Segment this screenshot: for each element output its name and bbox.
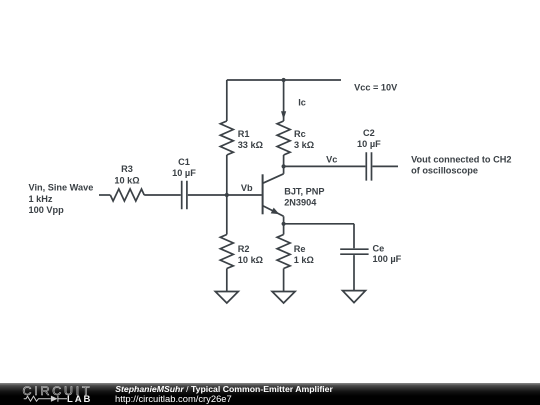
wire Vcc rail — [227, 79, 341, 81]
transistor Q1 emitter diagonal — [263, 206, 284, 217]
transistor Q1 emitter arrowhead — [271, 208, 280, 215]
svg-text:Rc: Rc — [294, 129, 306, 139]
label node Vb — [241, 183, 253, 193]
wire C2 to output — [372, 165, 398, 167]
wire emitter down to emitter node — [283, 216, 285, 224]
svg-text:100 Vpp: 100 Vpp — [29, 205, 65, 215]
svg-text:Re: Re — [294, 244, 306, 254]
resistor R1 — [220, 121, 233, 155]
svg-text:33 kΩ: 33 kΩ — [238, 140, 263, 150]
svg-text:R2: R2 — [238, 244, 250, 254]
label Ic — [298, 98, 306, 108]
label C1 value — [172, 157, 196, 178]
svg-text:Vout connected to CH2: Vout connected to CH2 — [411, 155, 511, 165]
label node Vc — [326, 155, 337, 165]
CircuitLab logo wordmark CIRCUIT — [23, 384, 93, 398]
label Ce value — [373, 244, 402, 265]
svg-text:Vb: Vb — [241, 183, 253, 193]
label Re value — [294, 244, 314, 265]
svg-text:of oscilloscope: of oscilloscope — [411, 166, 478, 176]
svg-text:100 µF: 100 µF — [373, 254, 402, 264]
ground below Re — [272, 292, 295, 304]
wire emitter node to Ce — [284, 224, 354, 249]
svg-text:10 kΩ: 10 kΩ — [238, 255, 263, 265]
svg-text:C1: C1 — [178, 157, 190, 167]
wire Vin lead — [99, 194, 110, 196]
wire Ce to ground — [353, 255, 355, 291]
wire node Vb to R2 — [226, 195, 228, 235]
svg-text:3 kΩ: 3 kΩ — [294, 140, 314, 150]
label Rc value — [294, 129, 314, 150]
wire R1 top lead — [226, 80, 228, 121]
svg-text:R3: R3 — [121, 164, 133, 174]
label Q1 type BJT PNP 2N3904 — [284, 187, 324, 208]
svg-text:R1: R1 — [238, 129, 250, 139]
label Vout note — [411, 155, 511, 176]
capacitor C2 — [366, 152, 371, 180]
svg-text:C2: C2 — [363, 128, 375, 138]
wire Re to ground — [283, 269, 285, 292]
svg-text:2N3904: 2N3904 — [284, 198, 317, 208]
junction dot node Vc — [282, 164, 286, 168]
svg-text:10 kΩ: 10 kΩ — [114, 175, 139, 185]
wire emitter node to Re — [283, 224, 285, 235]
resistor Rc — [277, 121, 290, 155]
wire C1 to base — [188, 194, 262, 196]
junction dot Vcc-Rc — [282, 78, 286, 82]
ground below R2 — [215, 292, 238, 304]
junction dot node Vb — [225, 193, 229, 197]
label Vcc = 10V — [354, 82, 398, 92]
wire Rc top lead with Ic current — [283, 80, 285, 121]
wire R1 to node Vb — [226, 155, 228, 195]
svg-text:Vcc = 10V: Vcc = 10V — [354, 82, 398, 92]
label R2 value — [238, 244, 263, 265]
label R1 value — [238, 129, 263, 150]
svg-text:Vc: Vc — [326, 155, 337, 165]
wire node Vc to C2 — [284, 165, 366, 167]
svg-text:10 µF: 10 µF — [172, 168, 196, 178]
wire collector to node Vc — [283, 166, 285, 173]
wire R2 to ground — [226, 269, 228, 292]
svg-text:BJT, PNP: BJT, PNP — [284, 187, 324, 197]
svg-text:Ce: Ce — [373, 244, 385, 254]
transistor Q1 base bar — [262, 174, 264, 214]
svg-text:http://circuitlab.com/cry26e7: http://circuitlab.com/cry26e7 — [115, 393, 232, 404]
label C2 value — [357, 128, 381, 149]
wire R3 to C1 — [144, 194, 181, 196]
resistor R2 — [220, 235, 233, 269]
svg-text:LAB: LAB — [67, 394, 92, 405]
CircuitLab logo resistor squiggle and diode — [24, 396, 67, 402]
ground below Ce — [343, 291, 366, 303]
current arrow Ic — [281, 111, 286, 119]
wire Rc to node Vc — [283, 155, 285, 166]
junction dot emitter node — [282, 222, 286, 226]
transistor Q1 collector diagonal — [263, 174, 284, 184]
svg-text:Ic: Ic — [298, 98, 306, 108]
resistor Re — [277, 235, 290, 269]
capacitor C1 — [182, 181, 187, 209]
footer url — [115, 393, 232, 404]
label source Vin — [29, 183, 94, 216]
resistor R3 — [110, 189, 144, 201]
capacitor Ce — [340, 249, 368, 254]
svg-text:1 kΩ: 1 kΩ — [294, 255, 314, 265]
svg-text:1 kHz: 1 kHz — [29, 194, 53, 204]
footer bar — [0, 383, 540, 405]
label R3 value — [114, 164, 139, 185]
svg-text:10 µF: 10 µF — [357, 139, 381, 149]
CircuitLab logo wordmark LAB — [67, 394, 92, 405]
footer title StephanieMSuhr / Typical Common-Emitter Amplifier — [115, 384, 333, 394]
svg-text:Vin, Sine Wave: Vin, Sine Wave — [29, 183, 94, 193]
